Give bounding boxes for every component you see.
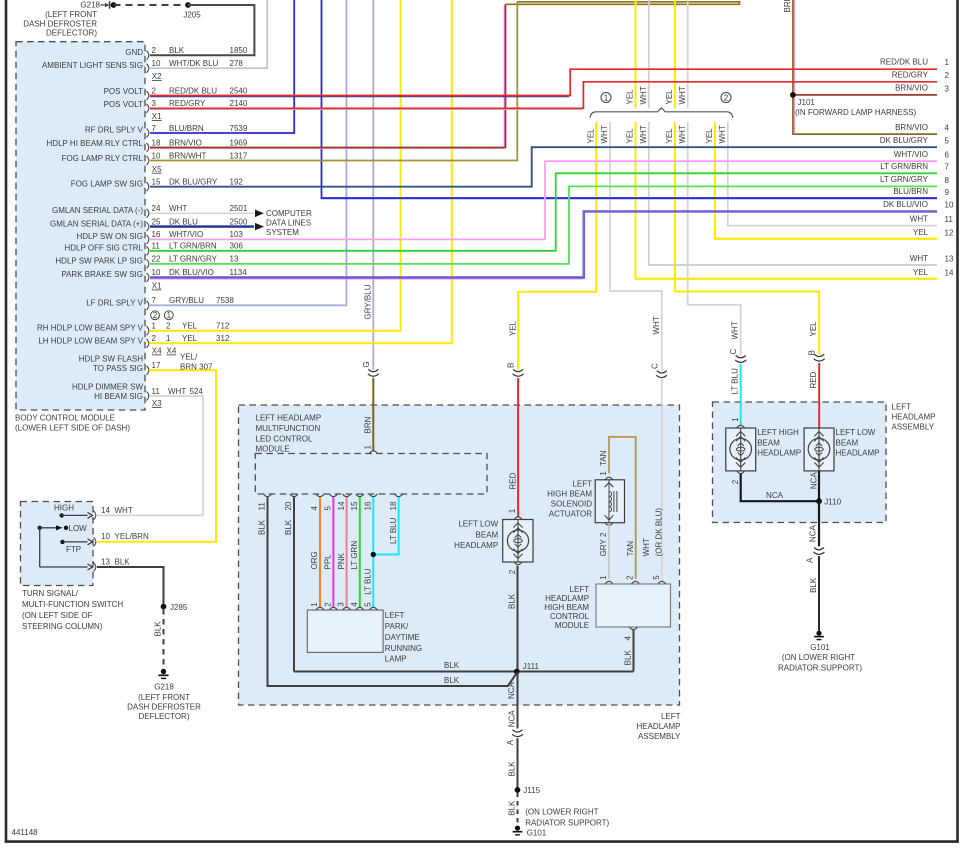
svg-text:YEL: YEL — [665, 128, 674, 144]
label RED right assembly — [809, 371, 818, 388]
BCM pin numbers wire names and circuit numbers — [152, 46, 248, 396]
svg-text:(ON LOWER RIGHT: (ON LOWER RIGHT — [525, 808, 598, 817]
svg-text:B: B — [507, 363, 516, 368]
left park daytime running lamp box — [307, 602, 383, 653]
wire GRY/BLU from top edge down to G break — [372, 0, 374, 370]
left headlamp assembly box (center) — [239, 405, 680, 705]
connector circled 1 (top) — [601, 93, 611, 103]
wire BRN/WHT 1317 from BCM up to top hook — [150, 2, 517, 161]
svg-text:TAN: TAN — [599, 450, 608, 466]
svg-text:12: 12 — [945, 229, 954, 238]
svg-text:14: 14 — [337, 501, 346, 510]
svg-text:MODULE: MODULE — [555, 621, 589, 630]
svg-text:2501: 2501 — [230, 204, 248, 213]
svg-text:YEL: YEL — [913, 228, 929, 237]
svg-text:WHT: WHT — [910, 215, 928, 224]
label WHT above right C break — [731, 321, 740, 339]
svg-text:LT BLU: LT BLU — [364, 568, 373, 595]
svg-text:LT GRN/BRN: LT GRN/BRN — [880, 162, 928, 171]
svg-text:(ON LEFT SIDE OF: (ON LEFT SIDE OF — [22, 611, 93, 620]
svg-text:HEADLAMP: HEADLAMP — [757, 449, 801, 458]
wire NCA J111 down through box edge — [517, 672, 519, 729]
svg-text:HEADLAMP: HEADLAMP — [836, 449, 880, 458]
svg-text:DEFLECTOR): DEFLECTOR) — [46, 29, 97, 38]
wire BRN/VIO 1969 from BCM up with magenta fringe — [150, 4, 506, 149]
label BLK on dashed ground wire — [153, 621, 162, 637]
svg-text:YEL: YEL — [809, 321, 818, 337]
wire BLK 13 from turn signal to J285 — [97, 567, 164, 607]
break G symbol on GRY/BLU to BRN — [368, 369, 379, 376]
svg-text:15: 15 — [350, 501, 359, 510]
wire BLU/BRN 7539 from BCM up to top edge — [150, 0, 294, 133]
svg-text:LEFT LOW: LEFT LOW — [836, 428, 876, 437]
LED control module caption — [256, 414, 322, 454]
svg-text:BRN: BRN — [783, 0, 792, 13]
svg-text:2500: 2500 — [230, 217, 248, 226]
LED module bottom pin arcs — [264, 494, 403, 497]
svg-text:HEADLAMP: HEADLAMP — [545, 594, 589, 603]
svg-text:2: 2 — [153, 311, 158, 320]
wire YEL pair2 top edge through brace to row 14 — [636, 0, 938, 279]
svg-text:STEERING COLUMN): STEERING COLUMN) — [22, 622, 103, 631]
svg-text:16: 16 — [152, 230, 161, 239]
label YEL above right B break — [809, 321, 818, 337]
wire YEL row 14 horizontal — [636, 278, 938, 280]
svg-text:2: 2 — [152, 86, 157, 95]
svg-text:WHT: WHT — [718, 125, 727, 143]
svg-text:2: 2 — [152, 334, 157, 343]
svg-text:13: 13 — [945, 255, 954, 264]
svg-text:LT GRN: LT GRN — [350, 541, 359, 570]
svg-text:WHT: WHT — [115, 506, 133, 515]
svg-text:YEL: YEL — [508, 320, 517, 336]
svg-text:(ON LOWER RIGHT: (ON LOWER RIGHT — [782, 653, 855, 662]
svg-text:X3: X3 — [152, 399, 162, 408]
break B symbol center (YEL to RED) — [513, 369, 524, 376]
svg-text:9: 9 — [945, 188, 950, 197]
label NCA below box edge — [507, 710, 516, 728]
svg-text:YEL: YEL — [705, 128, 714, 144]
svg-text:RUNNING: RUNNING — [385, 644, 422, 653]
wire WHT/DK BLU 278 from BCM up to top edge — [150, 0, 267, 68]
svg-text:NCA: NCA — [809, 525, 818, 543]
svg-text:HIGH BEAM: HIGH BEAM — [544, 603, 589, 612]
label GRY — [599, 539, 608, 557]
svg-text:RED/DK BLU: RED/DK BLU — [880, 57, 928, 66]
svg-text:1969: 1969 — [230, 138, 248, 147]
svg-text:TURN SIGNAL/: TURN SIGNAL/ — [22, 589, 79, 598]
node G218 top label — [23, 1, 100, 38]
svg-text:18: 18 — [389, 501, 398, 510]
svg-text:BLK: BLK — [169, 46, 185, 55]
svg-text:24: 24 — [152, 204, 161, 213]
svg-text:YEL: YEL — [182, 334, 198, 343]
svg-text:J101: J101 — [798, 98, 816, 107]
wire YEL row 12 horizontal — [715, 238, 937, 240]
svg-text:BLK: BLK — [507, 761, 516, 777]
svg-text:FOG LAMP SW SIG: FOG LAMP SW SIG — [71, 180, 143, 189]
wire ORG to running lamp — [319, 497, 321, 607]
wire WHT pair2 top edge through brace to row 13 — [649, 0, 937, 265]
label A center — [506, 739, 515, 745]
wire DK BLU/GRY 192 to row 5 — [150, 147, 937, 187]
wire BLK 11 from LED module to J111 lower branch — [268, 497, 517, 686]
svg-text:WHT: WHT — [910, 254, 928, 263]
svg-text:X4: X4 — [167, 347, 177, 356]
wire GRY solenoid to control module pin 1 — [608, 525, 610, 579]
label GRY/BLU above G break — [364, 284, 373, 319]
svg-text:TO PASS SIG: TO PASS SIG — [93, 364, 143, 373]
wire RED from B break to center low beam pin 1 — [517, 378, 519, 517]
brace over connector wires — [590, 108, 733, 118]
right edge row labels and terminal numbers — [880, 57, 954, 277]
lamp right low beam headlamp — [804, 428, 834, 471]
svg-text:WHT/DK BLU: WHT/DK BLU — [169, 59, 219, 68]
svg-text:20: 20 — [284, 501, 293, 510]
svg-text:WHT: WHT — [600, 125, 609, 143]
left headlamp assembly box (right) — [713, 402, 887, 523]
label B center — [507, 363, 516, 368]
wire BLK dashed J285 to G218 ground — [163, 609, 165, 669]
svg-text:HDLP SW PARK LP SIG: HDLP SW PARK LP SIG — [55, 257, 143, 266]
wire BLK J111 horizontal — [294, 671, 634, 673]
svg-text:BLU/BRN: BLU/BRN — [893, 187, 928, 196]
label NCA right low beam wire — [810, 472, 819, 490]
svg-text:18: 18 — [152, 138, 161, 147]
svg-text:278: 278 — [230, 59, 244, 68]
wire WHT pair4 brace to row 11 — [728, 122, 937, 226]
svg-text:SYSTEM: SYSTEM — [266, 228, 299, 237]
svg-text:1: 1 — [599, 575, 608, 580]
svg-text:HEADLAMP: HEADLAMP — [892, 413, 936, 422]
node J101 — [790, 92, 917, 117]
label BLK above J115 — [507, 761, 516, 777]
svg-text:2: 2 — [599, 532, 608, 537]
label B right — [807, 350, 816, 355]
svg-text:PARK BRAKE SW SIG: PARK BRAKE SW SIG — [61, 270, 143, 279]
svg-text:TAN: TAN — [626, 541, 635, 557]
break A symbol center — [512, 730, 523, 737]
svg-text:WHT/VIO: WHT/VIO — [169, 230, 203, 239]
label BLK center low beam wire — [507, 593, 516, 609]
svg-text:BLK: BLK — [624, 650, 633, 666]
svg-text:1134: 1134 — [230, 268, 248, 277]
svg-text:J110: J110 — [824, 498, 841, 507]
turn signal switch internals LOW contact — [38, 524, 88, 567]
wire LT GRN/GRY 13 to row 8 — [150, 186, 937, 264]
svg-text:WHT: WHT — [678, 86, 687, 104]
wire YEL 312 from BCM up to top edge — [150, 0, 452, 343]
svg-text:WHT: WHT — [731, 321, 740, 339]
svg-text:DK BLU/VIO: DK BLU/VIO — [169, 268, 214, 277]
svg-text:BRN/WHT: BRN/WHT — [169, 151, 206, 160]
svg-text:PNK: PNK — [337, 552, 346, 569]
ground G218 — [127, 669, 201, 721]
svg-text:1: 1 — [945, 58, 950, 67]
wire YEL 712 from BCM up to top edge — [150, 0, 401, 331]
caption center left headlamp assembly — [636, 712, 681, 741]
svg-text:G101: G101 — [810, 643, 830, 652]
svg-text:LH HDLP LOW BEAM SPY V: LH HDLP LOW BEAM SPY V — [38, 336, 143, 345]
break A symbol right — [814, 548, 825, 555]
svg-text:17: 17 — [152, 361, 161, 370]
svg-text:LT BLU: LT BLU — [731, 368, 740, 395]
wire RED from right B break to right low beam — [818, 363, 820, 429]
svg-text:RADIATOR SUPPORT): RADIATOR SUPPORT) — [525, 818, 609, 827]
svg-text:BEAM: BEAM — [757, 438, 780, 447]
svg-text:LEFT: LEFT — [572, 480, 592, 489]
svg-text:HIGH BEAM: HIGH BEAM — [547, 490, 592, 499]
svg-text:WHT: WHT — [639, 125, 648, 143]
label YEL above B break — [508, 320, 517, 336]
svg-text:GRY: GRY — [599, 539, 608, 557]
svg-text:8: 8 — [945, 176, 950, 185]
svg-text:B: B — [807, 350, 816, 355]
svg-text:YEL: YEL — [626, 128, 635, 144]
svg-text:4: 4 — [310, 506, 319, 511]
ground G101 right — [810, 631, 830, 652]
svg-text:10: 10 — [945, 201, 954, 210]
svg-text:POS VOLT: POS VOLT — [104, 87, 144, 96]
wire labels YEL WHT above brace — [626, 86, 687, 104]
svg-text:5: 5 — [324, 506, 333, 511]
svg-text:MULTIFUNCTION: MULTIFUNCTION — [256, 424, 321, 433]
svg-text:BLK: BLK — [444, 661, 460, 670]
svg-text:HDLP HI BEAM RLY CTRL: HDLP HI BEAM RLY CTRL — [47, 139, 144, 148]
svg-text:7: 7 — [152, 124, 157, 133]
svg-text:FTP: FTP — [66, 545, 81, 554]
svg-text:11: 11 — [258, 502, 267, 511]
wire BLK 1850 G218 to J205 to BCM GND — [101, 1, 255, 55]
turn signal pin labels — [101, 506, 149, 567]
svg-text:712: 712 — [216, 322, 230, 331]
svg-text:LT GRN/GRY: LT GRN/GRY — [169, 255, 218, 264]
svg-text:NCA: NCA — [766, 491, 784, 500]
svg-text:13: 13 — [101, 557, 110, 566]
svg-text:7538: 7538 — [216, 296, 234, 305]
label 1 solenoid pin — [599, 471, 608, 476]
svg-text:2: 2 — [323, 602, 332, 607]
svg-text:WHT: WHT — [678, 125, 687, 143]
svg-text:(LOWER LEFT SIDE OF DASH): (LOWER LEFT SIDE OF DASH) — [15, 424, 130, 433]
ground G101 center — [513, 826, 547, 838]
svg-text:4: 4 — [350, 602, 359, 607]
svg-text:11: 11 — [152, 387, 161, 396]
svg-text:2: 2 — [508, 569, 517, 574]
wire top hook joining BRN/VIO and BRN/WHT verticals — [506, 2, 740, 5]
svg-text:GRY/BLU: GRY/BLU — [169, 296, 204, 305]
svg-text:WHT/VIO: WHT/VIO — [894, 150, 928, 159]
headlamp high beam control module box — [596, 581, 671, 629]
svg-text:1: 1 — [166, 334, 171, 343]
wire PPL to running lamp — [332, 497, 334, 607]
svg-text:1: 1 — [508, 508, 517, 513]
svg-text:5: 5 — [945, 137, 950, 146]
svg-text:25: 25 — [152, 217, 161, 226]
caption right low beam — [836, 428, 880, 458]
caption right G101 location — [778, 653, 862, 672]
wire WHT pair3 top edge through brace to C break (right high beam) — [688, 0, 741, 356]
caption right left headlamp assembly — [892, 402, 936, 431]
svg-text:LEFT: LEFT — [385, 611, 405, 620]
svg-text:10: 10 — [152, 151, 161, 160]
wire YEL/BRN 307 BCM to turn signal pin 10 — [97, 370, 216, 541]
left headlamp multifunction LED control module inner box — [255, 454, 487, 495]
svg-text:306: 306 — [230, 242, 244, 251]
label 1 right high beam pin — [731, 417, 740, 422]
svg-text:DAYTIME: DAYTIME — [385, 633, 420, 642]
label NCA above box edge — [507, 681, 516, 699]
label G — [362, 361, 371, 367]
label TAN upper — [599, 450, 608, 466]
svg-text:C: C — [650, 363, 659, 369]
wire TAN solenoid to control module pin 2 — [609, 437, 636, 579]
svg-text:DK BLU/GRY: DK BLU/GRY — [169, 178, 218, 187]
svg-text:7539: 7539 — [230, 124, 248, 133]
svg-text:WHT: WHT — [652, 316, 661, 334]
svg-text:(LEFT FRONT: (LEFT FRONT — [45, 10, 97, 19]
node J285 — [161, 603, 188, 612]
wire LT BLU 18 joining wire 16 — [374, 497, 399, 554]
svg-text:2: 2 — [626, 575, 635, 580]
svg-text:RED/GRY: RED/GRY — [169, 99, 206, 108]
svg-text:14: 14 — [945, 268, 954, 277]
svg-text:524: 524 — [190, 387, 204, 396]
svg-text:10: 10 — [152, 268, 161, 277]
svg-text:1317: 1317 — [230, 151, 248, 160]
svg-text:HEADLAMP: HEADLAMP — [454, 541, 498, 550]
caption solenoid — [547, 480, 592, 519]
svg-text:X2: X2 — [152, 72, 162, 81]
svg-text:192: 192 — [230, 178, 244, 187]
svg-text:BRN/VIO: BRN/VIO — [895, 123, 928, 132]
svg-text:DK BLU: DK BLU — [169, 217, 198, 226]
svg-text:J111: J111 — [523, 662, 540, 671]
node J110 — [816, 498, 842, 507]
label C right — [729, 349, 738, 355]
wire BRN from G break into LED module pin 1 — [372, 378, 374, 451]
label BLK dashed segment — [507, 800, 516, 816]
wire J101 BRN vertical from top edge to row4 — [793, 0, 937, 134]
svg-text:GRY/BLU: GRY/BLU — [364, 284, 373, 319]
label WHT (OR DK BLU) — [642, 508, 664, 557]
svg-text:ASSEMBLY: ASSEMBLY — [892, 423, 935, 432]
svg-text:YEL: YEL — [665, 89, 674, 105]
wire WHT 524 BCM to turn signal pin 14 — [97, 396, 203, 515]
svg-text:G: G — [362, 361, 371, 367]
turn signal switch internals FTP contact — [60, 540, 87, 554]
svg-text:YEL/BRN: YEL/BRN — [115, 532, 149, 541]
svg-text:LT GRN/GRY: LT GRN/GRY — [880, 175, 929, 184]
svg-text:16: 16 — [364, 501, 373, 510]
wire right low beam to J110 — [818, 471, 820, 501]
label BLK pin4 wire — [624, 650, 633, 666]
svg-text:BRN 307: BRN 307 — [180, 363, 213, 372]
wire RED/GRY 2140 to row 2 — [150, 82, 937, 110]
svg-text:POS VOLT: POS VOLT — [104, 100, 144, 109]
svg-text:15: 15 — [152, 178, 161, 187]
svg-text:4: 4 — [624, 636, 633, 641]
wire LT GRN/BRN 306 to row 7 — [150, 173, 937, 251]
wire BLU/BRN row 9 vertical from top edge — [322, 0, 938, 198]
svg-text:2: 2 — [166, 322, 171, 331]
svg-text:ASSEMBLY: ASSEMBLY — [638, 732, 681, 741]
svg-text:1: 1 — [731, 417, 740, 422]
wire WHT row 11 horizontal — [728, 225, 937, 227]
svg-text:PPL: PPL — [324, 554, 333, 570]
label 4 control module bottom pin — [624, 636, 633, 641]
LED module bottom pin numbers — [258, 501, 398, 510]
svg-text:YEL/: YEL/ — [180, 353, 198, 362]
svg-text:AMBIENT LIGHT SENS SIG: AMBIENT LIGHT SENS SIG — [42, 61, 143, 70]
svg-text:HI BEAM SIG: HI BEAM SIG — [94, 392, 143, 401]
wire WHT pair1 brace to C break (center module) — [610, 122, 662, 371]
label BRN at top edge — [783, 0, 792, 13]
svg-text:X4: X4 — [152, 347, 162, 356]
svg-text:2540: 2540 — [230, 86, 248, 95]
svg-text:ORG: ORG — [310, 551, 319, 569]
svg-text:BLK: BLK — [258, 519, 267, 535]
svg-text:10: 10 — [101, 532, 110, 541]
wire BLK dashed J115 to ground — [517, 793, 519, 826]
svg-text:G218: G218 — [80, 1, 100, 10]
svg-text:COMPUTER: COMPUTER — [266, 209, 312, 218]
wire BLK 20 from LED module to J111 — [293, 497, 295, 671]
svg-text:NCA: NCA — [810, 472, 819, 490]
svg-text:RF DRL SPLY V: RF DRL SPLY V — [85, 126, 144, 135]
BCM connector X labels — [152, 72, 177, 408]
wire YEL pair3 top edge through brace to B break (right low beam) — [675, 0, 819, 355]
wire labels YEL WHT below brace — [586, 125, 727, 143]
wire LT GRN to running lamp — [359, 497, 361, 607]
svg-text:DASH DEFROSTER: DASH DEFROSTER — [127, 702, 201, 711]
turn signal pin arrows and arcs — [88, 511, 96, 572]
svg-text:LEFT: LEFT — [892, 402, 912, 411]
svg-text:1: 1 — [167, 311, 172, 320]
node J115 — [515, 786, 541, 795]
svg-text:7: 7 — [945, 163, 950, 172]
svg-text:BLK: BLK — [809, 577, 818, 593]
label 1 BRN on module pin 1 wire — [364, 416, 373, 449]
wire GMLAN DK BLU 2500 with arrow — [150, 223, 264, 230]
svg-text:G218: G218 — [154, 683, 174, 692]
svg-text:(OR DK BLU): (OR DK BLU) — [654, 508, 663, 557]
break C symbol center (WHT to control module) — [656, 371, 667, 378]
wire RED/DK BLU 2540 to row 1 — [150, 69, 937, 97]
svg-text:7: 7 — [152, 296, 157, 305]
svg-text:LEFT HIGH: LEFT HIGH — [757, 428, 799, 437]
svg-text:441148: 441148 — [12, 828, 39, 837]
svg-text:1: 1 — [364, 445, 373, 450]
svg-text:5: 5 — [363, 602, 372, 607]
svg-text:GND: GND — [125, 48, 143, 57]
label NCA horizontal — [766, 491, 784, 500]
svg-text:BRN/VIO: BRN/VIO — [895, 84, 928, 93]
label NCA below right box — [809, 525, 818, 543]
labels BLK BLK on module wires — [258, 519, 294, 535]
svg-text:1850: 1850 — [230, 46, 248, 55]
svg-text:YEL: YEL — [626, 89, 635, 105]
wire GMLAN WHT 2501 with arrow — [150, 210, 264, 217]
svg-text:(IN FORWARD LAMP HARNESS): (IN FORWARD LAMP HARNESS) — [795, 108, 917, 117]
svg-text:103: 103 — [230, 230, 244, 239]
svg-text:2: 2 — [724, 93, 729, 102]
svg-text:GMLAN SERIAL DATA (+): GMLAN SERIAL DATA (+) — [50, 220, 143, 229]
svg-text:ACTUATOR: ACTUATOR — [549, 510, 592, 519]
svg-text:NCA: NCA — [507, 681, 516, 699]
svg-text:LT BLU: LT BLU — [389, 517, 398, 544]
svg-text:J205: J205 — [183, 11, 201, 20]
